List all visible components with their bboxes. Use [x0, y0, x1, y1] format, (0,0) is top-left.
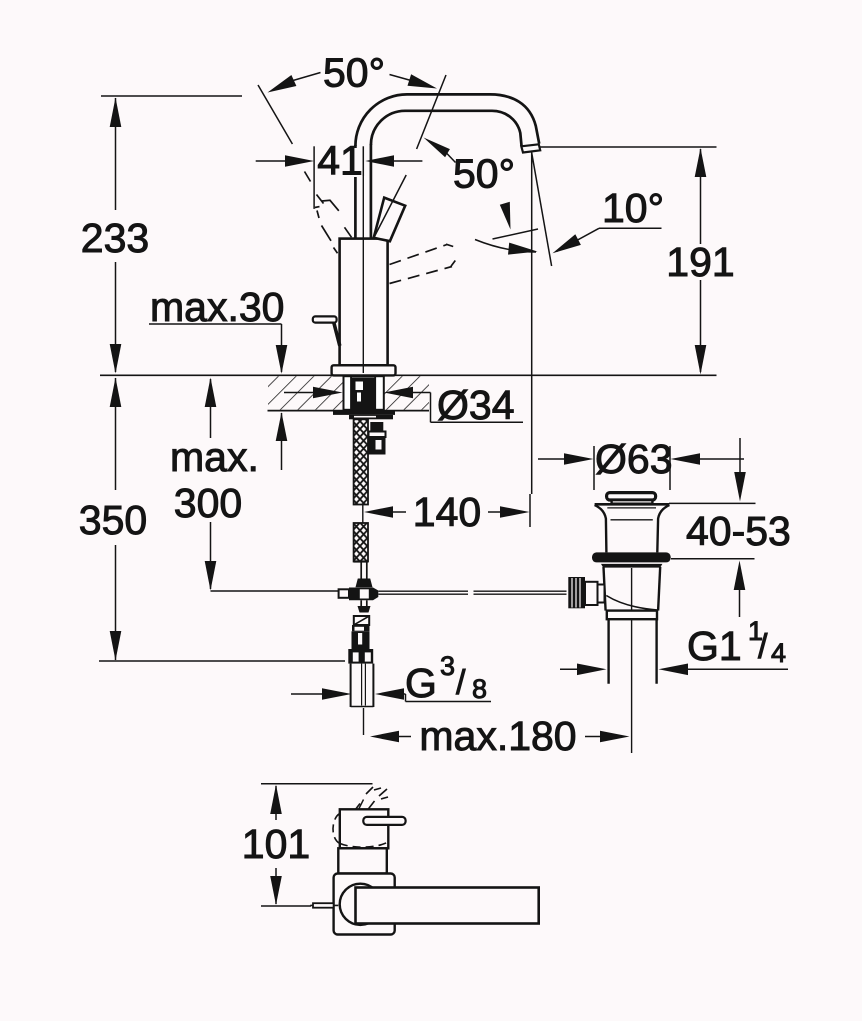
check valve assembly	[348, 616, 373, 664]
hose break centre line	[362, 505, 364, 524]
svg-text:3: 3	[440, 651, 455, 681]
dimension 10 degrees	[553, 185, 665, 253]
lever handle solid	[374, 175, 407, 241]
counter deck hatched section	[100, 375, 717, 410]
svg-text:140: 140	[413, 489, 481, 535]
svg-text:300: 300	[174, 480, 242, 526]
dimension diameter 63	[538, 436, 744, 490]
short connector hose	[369, 422, 386, 455]
spout outlet reference vertical	[531, 151, 533, 494]
locknut below deck	[333, 411, 395, 420]
dimension 50 degrees top	[258, 49, 446, 149]
pull rod knob on body	[313, 316, 340, 345]
svg-text:191: 191	[666, 239, 734, 285]
spout swivel dashed lines	[390, 244, 456, 283]
dimension 350 vertical line	[79, 378, 345, 662]
dimension 140	[364, 489, 530, 535]
svg-text:8: 8	[472, 674, 487, 704]
dimension diameter 34	[284, 382, 523, 428]
dimension 50 degrees swivel	[424, 138, 539, 255]
svg-text:max.180: max.180	[419, 713, 576, 759]
faucet centre line	[362, 146, 364, 373]
flexible supply hose upper segment	[354, 419, 368, 504]
dimension 41	[256, 138, 423, 209]
dimension 233 vertical line	[81, 96, 242, 374]
pop-up waste drain assembly	[568, 493, 670, 753]
svg-text:max.: max.	[170, 434, 259, 480]
svg-text:40-53: 40-53	[686, 508, 791, 554]
svg-text:Ø34: Ø34	[437, 382, 515, 428]
svg-text:50°: 50°	[453, 151, 515, 197]
G 3/8 connection tube	[351, 664, 374, 735]
bottom side view	[310, 787, 538, 935]
faucet body	[340, 239, 388, 366]
handle dashed alternate position	[305, 172, 352, 254]
svg-text:4: 4	[771, 638, 786, 668]
faucet base escutcheon	[332, 365, 396, 375]
dimension 101	[242, 784, 373, 906]
dimension 191	[533, 147, 735, 375]
svg-text:/: /	[456, 664, 466, 702]
svg-text:233: 233	[81, 215, 149, 261]
horizontal pull rod	[378, 591, 566, 594]
dimension G1 1/4	[560, 616, 788, 675]
dimension max.300	[170, 378, 339, 592]
svg-text:G: G	[405, 660, 437, 706]
svg-text:10°: 10°	[602, 185, 664, 231]
spout tube	[355, 94, 540, 238]
dimension max.30 with leader	[149, 284, 287, 470]
svg-text:Ø63: Ø63	[595, 436, 673, 482]
svg-text:350: 350	[79, 497, 147, 543]
dimension G 3/8	[291, 651, 491, 706]
lower neck below tee	[358, 600, 371, 612]
spout 10 degree tilt line	[531, 151, 551, 267]
hose end fitting neck	[356, 562, 373, 587]
dimension max.180	[370, 713, 630, 759]
svg-text:101: 101	[242, 821, 310, 867]
svg-text:50°: 50°	[323, 49, 385, 95]
flexible supply hose lower segment	[354, 523, 368, 562]
threaded shank through deck	[344, 376, 384, 410]
svg-text:/: /	[758, 628, 768, 666]
tee connector with pull rod	[339, 588, 379, 601]
dimension 40-53	[669, 438, 791, 617]
svg-text:G1: G1	[687, 623, 742, 669]
svg-text:max.30: max.30	[150, 284, 284, 330]
